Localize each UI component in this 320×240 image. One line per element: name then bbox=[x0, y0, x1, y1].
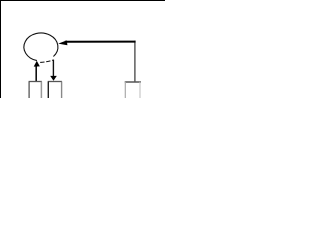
up arrowhead into ellipse bottom bbox=[34, 61, 40, 67]
top border bbox=[0, 0, 165, 2]
box A left edge bbox=[28, 82, 30, 99]
box C right edge bbox=[139, 82, 141, 98]
box B right edge bbox=[61, 82, 63, 99]
left border bbox=[0, 0, 2, 98]
wire: vertical from right box up to corner bbox=[134, 41, 136, 82]
box A right edge bbox=[40, 82, 42, 99]
box C top edge bbox=[125, 81, 141, 83]
background bbox=[0, 0, 165, 98]
box C left edge bbox=[124, 82, 126, 98]
ellipse node (dashed bottom arc) bbox=[40, 60, 53, 62]
up arrow tail from box A bbox=[35, 66, 37, 81]
ellipse node (solid part) bbox=[24, 33, 58, 61]
box B top edge bbox=[48, 81, 62, 83]
box A top edge bbox=[29, 81, 42, 83]
box B left edge bbox=[47, 82, 49, 99]
down arrowhead into box B bbox=[50, 76, 57, 81]
wire: thick horizontal arrow shaft into ellipse bbox=[65, 41, 136, 43]
arrowhead into ellipse right side bbox=[58, 40, 67, 45]
down wire from ellipse to box B bbox=[52, 60, 54, 77]
